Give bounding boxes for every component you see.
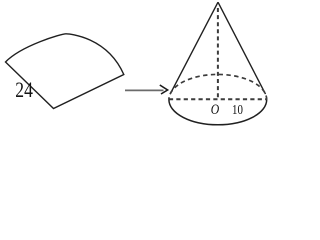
svg-text:24: 24 bbox=[15, 78, 33, 102]
base ellipse front half (solid) bbox=[169, 100, 267, 125]
cone left slant side bbox=[170, 2, 218, 94]
arrow shaft (transformation arrow) bbox=[125, 89, 164, 91]
cone right slant side bbox=[218, 2, 266, 94]
base ellipse back half (dashed) bbox=[169, 74, 267, 99]
svg-text:10: 10 bbox=[232, 102, 243, 118]
arrow head bbox=[160, 85, 168, 94]
cone axis (dashed, apex to O) bbox=[217, 8, 219, 98]
svg-text:O: O bbox=[211, 101, 220, 118]
base diameter (dashed) bbox=[169, 98, 267, 100]
sector (unrolled lateral surface of cone) bbox=[6, 34, 124, 109]
